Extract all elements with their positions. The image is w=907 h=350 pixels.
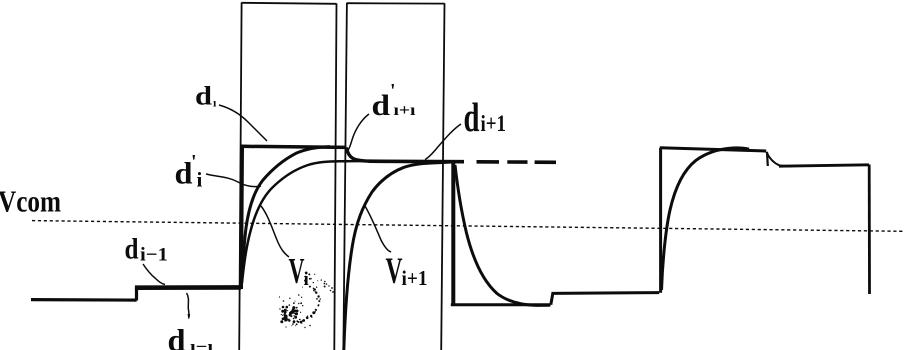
svg-text:': ' bbox=[390, 80, 396, 102]
wire: final falling edge bbox=[868, 165, 871, 295]
label d'(i-1) bbox=[168, 310, 214, 350]
curve V(i): pixel voltage charging row i bbox=[242, 147, 330, 280]
label V(i+1) bbox=[386, 251, 428, 292]
leader line for V(i) bbox=[261, 206, 289, 257]
wire: falling edge after row i+1 bbox=[451, 162, 455, 305]
svg-text:d: d bbox=[175, 156, 193, 191]
label d'(i+1) bbox=[372, 80, 417, 122]
svg-text:V: V bbox=[289, 251, 305, 291]
curve: discharge decay after falling edge bbox=[455, 165, 550, 305]
curve d'(i): effective data voltage row i bbox=[242, 161, 372, 283]
leader line for d(i) bbox=[219, 105, 267, 141]
leader line for d(i+1) bbox=[425, 124, 461, 160]
label d(i-1) bbox=[125, 233, 169, 266]
svg-text:i: i bbox=[304, 269, 309, 290]
wire: main data waveform d(i-1) low level bbox=[31, 298, 137, 302]
leader line for V(i+1) bbox=[365, 206, 391, 252]
label d(i) bbox=[195, 82, 217, 111]
curve: pixel voltage charging at rising edge 2 bbox=[662, 148, 750, 290]
wire: level to final drop bbox=[779, 165, 869, 166]
leader line for d'(i) bbox=[206, 174, 261, 187]
scan speckle blob artifact bbox=[279, 273, 334, 328]
svg-text:': ' bbox=[186, 310, 192, 332]
wire: high level 2 bbox=[660, 148, 766, 151]
gate pulse box 1 (row i) bbox=[239, 3, 336, 350]
wire: kickback notch 2 step bbox=[766, 152, 769, 166]
wire: low level after fall bbox=[451, 303, 551, 306]
svg-text:d: d bbox=[125, 233, 139, 266]
svg-text:V: V bbox=[386, 251, 403, 292]
svg-text:i−1: i−1 bbox=[140, 245, 168, 266]
gate pulse box 2 (row i+1) bbox=[343, 3, 444, 350]
leader line for d'(i+1) bbox=[347, 114, 370, 153]
svg-text:d: d bbox=[464, 94, 480, 140]
wire: dashed continuation of data level bbox=[477, 160, 557, 164]
svg-text:d: d bbox=[372, 89, 391, 122]
wire: small step up bbox=[551, 293, 659, 305]
label V(i) bbox=[289, 251, 309, 291]
svg-text:i+1: i+1 bbox=[402, 266, 428, 290]
svg-text:ı−ı: ı−ı bbox=[190, 337, 213, 350]
wire: d'(i+1) kickback notch decay bbox=[346, 148, 370, 162]
leader line for d(i-1) bbox=[143, 264, 165, 285]
wire: kickback notch 2 decay bbox=[766, 152, 792, 166]
label d(i+1) bbox=[464, 94, 507, 140]
Vcom dotted reference line bbox=[32, 221, 903, 232]
svg-text:i: i bbox=[197, 168, 203, 192]
svg-text:Vcom: Vcom bbox=[0, 184, 61, 219]
wire: rising edge 2 bbox=[659, 148, 662, 293]
curve V(i+1): pixel voltage charging row i+1 bbox=[344, 162, 452, 350]
svg-text:d: d bbox=[168, 322, 186, 350]
wire: level after notch to drop bbox=[369, 159, 465, 163]
wire: rising edge at row i and d(i) high level bbox=[241, 147, 242, 290]
svg-text:ı: ı bbox=[213, 96, 217, 110]
svg-text:i+1: i+1 bbox=[481, 111, 507, 136]
svg-text:d: d bbox=[195, 82, 213, 111]
svg-text:ı+ı: ı+ı bbox=[394, 102, 417, 119]
leader line for d'(i-1) bbox=[187, 293, 190, 317]
label d'(i) bbox=[175, 151, 203, 192]
